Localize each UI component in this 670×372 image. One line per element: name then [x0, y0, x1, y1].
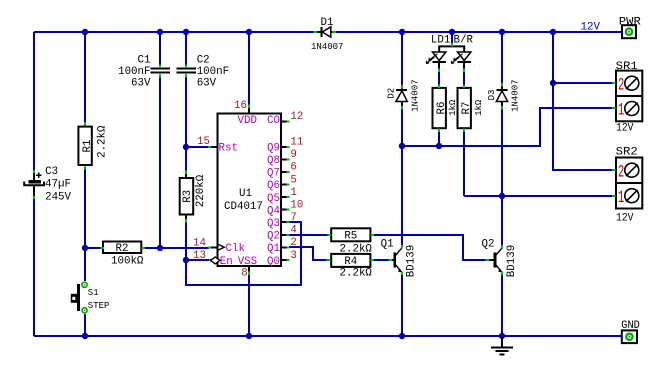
svg-text:Q7: Q7 [267, 168, 280, 180]
wire En node under IC to pin7 Q3 [186, 222, 301, 285]
LED LD1 right (R) [451, 52, 471, 68]
LED LD1 bracket [431, 34, 474, 52]
wire R3 to En node [185, 220, 187, 260]
pin 14 name Clk [226, 243, 245, 255]
pin 14 clock symbol [218, 244, 225, 250]
pin 5 label [290, 174, 296, 186]
connector GND [621, 320, 640, 343]
wire LD1 stem [451, 32, 453, 44]
junction Q2 emitter ground rail [499, 333, 505, 339]
wire pin13 En [186, 259, 209, 261]
svg-text:GND: GND [621, 320, 640, 332]
svg-text:1: 1 [290, 187, 296, 199]
svg-text:SR1: SR1 [616, 61, 638, 73]
svg-text:Q5: Q5 [267, 193, 280, 205]
svg-text:Q8: Q8 [267, 155, 280, 167]
svg-text:R6: R6 [436, 102, 448, 115]
wire left rail above C3 [33, 32, 35, 171]
junction S1 ground rail [82, 333, 88, 339]
wire pin16 VDD [248, 32, 250, 106]
junction Q1 emitter ground rail [399, 333, 405, 339]
svg-text:1N4007: 1N4007 [311, 42, 343, 52]
svg-text:245V: 245V [45, 191, 71, 203]
svg-text:4: 4 [290, 225, 296, 237]
junction SR feed top rail [550, 29, 556, 35]
pin 13 inversion diamond [211, 257, 220, 264]
wire R2 left [85, 247, 102, 249]
svg-text:Q6: Q6 [267, 180, 280, 192]
svg-text:1N4007: 1N4007 [510, 79, 520, 111]
junction D3 top rail [499, 29, 505, 35]
junction R2 left node [82, 245, 88, 251]
junction node A at R6 [436, 143, 442, 149]
wire D2 to node A [401, 106, 403, 146]
connector PWR [619, 17, 642, 39]
pin name Q2 [267, 231, 280, 243]
wire D2 branch top [401, 32, 403, 87]
diode D2 1N4007 [386, 79, 420, 111]
connector SR1 [616, 61, 643, 135]
svg-text:10: 10 [290, 200, 303, 212]
wire R6 to node A [438, 128, 440, 146]
svg-text:BD139: BD139 [406, 245, 418, 277]
resistor R7 [458, 88, 485, 128]
pin 16 name VDD [238, 115, 257, 127]
junction En node [183, 257, 189, 263]
diode D1 1N4007 [311, 17, 343, 52]
pin 9 label [290, 149, 296, 161]
svg-text:CO: CO [267, 115, 280, 127]
pin 14 stub [210, 247, 218, 249]
wire R7 to node B [463, 128, 465, 196]
wire Q2 emitter [501, 273, 503, 336]
pin 16 label [234, 100, 247, 112]
svg-text:14: 14 [193, 238, 206, 250]
svg-text:Rst: Rst [219, 143, 238, 155]
pin tips green [33, 31, 616, 275]
svg-text:B/R: B/R [454, 35, 474, 47]
svg-text:C2: C2 [197, 55, 210, 67]
right pin stubs 12,11,9,6,5,1,10,7,4,2,3 [281, 121, 287, 260]
svg-text:R5: R5 [344, 231, 357, 243]
svg-text:En: En [220, 256, 233, 268]
svg-text:VSS: VSS [238, 256, 257, 268]
pin 10 label [290, 200, 303, 212]
pin 6 label [290, 162, 296, 174]
pin 1 label [290, 187, 296, 199]
wire C2 branch top [185, 32, 187, 66]
junction C2 top rail [183, 29, 189, 35]
svg-text:Q0: Q0 [267, 256, 280, 268]
svg-text:12: 12 [290, 111, 303, 123]
wire left rail below C3 [33, 197, 35, 336]
wire SR feed vertical [553, 32, 616, 170]
svg-text:1N4007: 1N4007 [410, 79, 420, 111]
pin 13 label [193, 250, 206, 262]
svg-text:100nF: 100nF [118, 66, 150, 78]
svg-text:R2: R2 [116, 243, 129, 255]
svg-text:7: 7 [290, 212, 296, 224]
resistor R5 [331, 228, 372, 255]
resistor R4 [331, 254, 372, 280]
resistor R6 [433, 88, 459, 128]
junction R1 top rail [82, 29, 88, 35]
junction C1 top rail [157, 29, 163, 35]
wire pin8 VSS to ground [248, 273, 250, 336]
junction LD1 top rail [449, 29, 455, 35]
pin name Q3 [267, 218, 280, 230]
wire D3 to node B [501, 106, 503, 196]
svg-text:PWR: PWR [619, 17, 642, 29]
svg-text:6: 6 [290, 162, 296, 174]
pin 15 stub [210, 146, 218, 148]
svg-text:8: 8 [241, 268, 247, 280]
pin 2 label [290, 237, 296, 249]
capacitor C3 electrolytic [24, 166, 71, 203]
transistor Q1 BD139 [381, 239, 418, 278]
svg-text:R3: R3 [182, 190, 194, 203]
svg-text:Clk: Clk [226, 243, 245, 255]
svg-text:VDD: VDD [238, 115, 257, 127]
pin 7 label [290, 212, 296, 224]
pin 12 label [290, 111, 303, 123]
junction node B at D3 [499, 193, 505, 199]
resistor R1 [78, 124, 108, 168]
svg-text:LD1: LD1 [431, 34, 450, 46]
wire R2 right [143, 247, 160, 249]
svg-text:Q4: Q4 [267, 205, 280, 217]
svg-text:3: 3 [290, 250, 296, 262]
transistor Q2 BD139 [482, 239, 519, 278]
wire R5 to Q2 base [372, 235, 487, 260]
pin 13 stub [210, 259, 212, 261]
LED LD1 left (B) [426, 52, 446, 68]
wire S1 to ground rail [84, 314, 86, 336]
svg-text:C1: C1 [138, 55, 151, 67]
wire Q1 collector [401, 146, 403, 247]
svg-text:2: 2 [618, 75, 624, 95]
pin 15 name Rst [219, 143, 238, 155]
svg-text:STEP: STEP [88, 301, 110, 311]
pin 13 name En [220, 256, 233, 268]
pin VSS name [238, 256, 257, 268]
junction node A at D2 [399, 143, 405, 149]
svg-text:Q3: Q3 [267, 218, 280, 230]
junction SR1 pin2 tap [550, 80, 556, 86]
wire pin15 Rst [186, 146, 209, 148]
pin 3 label [290, 250, 296, 262]
svg-text:9: 9 [290, 149, 296, 161]
wire top 12V rail right of D1 [335, 31, 622, 33]
svg-text:D2: D2 [386, 88, 396, 99]
wire LED2 to R7 [463, 68, 465, 88]
connector SR2 [616, 147, 643, 225]
svg-text:CD4017: CD4017 [224, 201, 263, 213]
wire bottom ground rail [34, 335, 622, 337]
svg-text:1kΩ: 1kΩ [474, 99, 484, 116]
svg-text:U1: U1 [239, 188, 252, 200]
svg-text:2: 2 [618, 162, 624, 182]
pin name Q8 [267, 155, 280, 167]
svg-text:D1: D1 [321, 17, 334, 29]
svg-text:12V: 12V [581, 22, 601, 34]
svg-text:2.2kΩ: 2.2kΩ [340, 268, 373, 280]
svg-text:63V: 63V [131, 77, 151, 89]
svg-text:C3: C3 [45, 166, 58, 178]
wire C2 to Rst node [185, 75, 187, 147]
wire D3 branch top [501, 32, 503, 85]
svg-text:220kΩ: 220kΩ [195, 174, 207, 207]
svg-text:12V: 12V [616, 123, 634, 135]
junction R2 right node [157, 245, 163, 251]
junction D2 top rail [399, 29, 405, 35]
wire R4 to Q1 base [372, 259, 390, 261]
wire LED1 to R6 [438, 68, 440, 88]
wire C1 branch top [159, 32, 161, 66]
wire pin14 Clk [160, 247, 209, 249]
svg-text:2.2kΩ: 2.2kΩ [96, 125, 108, 158]
svg-text:11: 11 [290, 137, 303, 149]
diode D3 1N4007 [487, 79, 521, 111]
pin 8 label [241, 268, 247, 280]
pin name Q5 [267, 193, 280, 205]
wire R1 branch top [84, 32, 86, 124]
pin 4 label [290, 225, 296, 237]
pin 14 label [193, 238, 206, 250]
pin name Q7 [267, 168, 280, 180]
pin name Q1 [267, 243, 280, 255]
pin name Q0 [267, 256, 280, 268]
junction pin16 top rail [246, 29, 252, 35]
pin name Q6 [267, 180, 280, 192]
pin 12 name CO [267, 115, 280, 127]
label 12V at PWR [581, 22, 601, 34]
wire C1 to clk node [159, 75, 161, 248]
svg-text:R4: R4 [344, 256, 357, 268]
svg-text:100kΩ: 100kΩ [111, 256, 144, 268]
wire node A to SR1 pin1 [402, 108, 616, 146]
pin 16 stub [248, 107, 250, 114]
wire node B to SR2 pin1 [464, 195, 616, 197]
ground symbol [491, 336, 513, 355]
svg-text:47µF: 47µF [45, 179, 71, 191]
switch S1 STEP [71, 281, 110, 313]
svg-text:1: 1 [618, 188, 624, 208]
wire Q1 emitter [401, 273, 403, 336]
pin name Q9 [267, 143, 280, 155]
junction Rst node [183, 144, 189, 150]
svg-text:2.2kΩ: 2.2kΩ [340, 243, 373, 255]
svg-text:Q2: Q2 [482, 239, 495, 251]
svg-text:R7: R7 [461, 102, 473, 115]
svg-text:SR2: SR2 [616, 147, 638, 159]
capacitor C1 [118, 55, 170, 90]
pin 11 label [290, 137, 303, 149]
svg-text:BD139: BD139 [506, 245, 518, 277]
svg-text:2: 2 [290, 237, 296, 249]
svg-text:Q9: Q9 [267, 143, 280, 155]
svg-text:Q1: Q1 [267, 243, 280, 255]
svg-text:5: 5 [290, 174, 296, 186]
svg-text:12V: 12V [616, 213, 634, 225]
pin 15 label [197, 136, 210, 148]
pin name Q4 [267, 205, 280, 217]
wire pin2 Q1out to R4 [289, 247, 330, 260]
junction pin8 ground rail [246, 333, 252, 339]
wire top 12V rail left of D1 [34, 31, 313, 33]
pin 8 stub [248, 266, 250, 272]
wire pin4 Q2out to R5 [289, 234, 330, 236]
svg-text:13: 13 [193, 250, 206, 262]
svg-text:S1: S1 [88, 288, 99, 298]
svg-text:16: 16 [234, 100, 247, 112]
svg-text:Q1: Q1 [381, 239, 394, 251]
svg-text:1: 1 [618, 101, 624, 121]
op-amp U1 body CD4017 [218, 114, 282, 267]
svg-text:Q2: Q2 [267, 231, 280, 243]
wire Q2 collector [501, 196, 503, 247]
svg-text:63V: 63V [197, 77, 217, 89]
wire Rst node to R3 [185, 147, 187, 173]
svg-text:100nF: 100nF [197, 66, 229, 78]
resistor R3 [180, 173, 207, 220]
wire R1 to R2 node and S1 [84, 168, 86, 281]
capacitor C2 [177, 55, 230, 90]
svg-text:D3: D3 [487, 90, 497, 101]
resistor R2 [103, 242, 144, 268]
svg-text:R1: R1 [82, 140, 94, 153]
